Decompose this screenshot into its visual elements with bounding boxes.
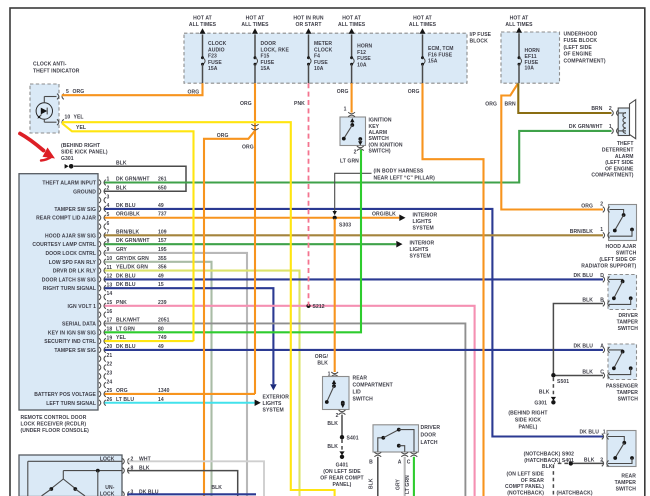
svg-text:FUSE: FUSE	[314, 60, 328, 66]
svg-text:F15: F15	[261, 54, 270, 60]
svg-text:G301: G301	[61, 156, 74, 162]
fuse F23 clock audio	[189, 16, 227, 84]
RCDLR pin 25	[34, 388, 112, 398]
svg-text:F12: F12	[357, 50, 366, 56]
svg-text:RIGHT TURN SIGNAL: RIGHT TURN SIGNAL	[43, 286, 96, 292]
svg-text:SWITCH: SWITCH	[616, 251, 637, 257]
RCDLR pin 4	[54, 203, 109, 213]
svg-text:21: 21	[107, 353, 113, 359]
hood ajar switch	[570, 201, 637, 269]
svg-text:10A: 10A	[314, 66, 324, 72]
svg-text:PASSENGER: PASSENGER	[606, 384, 638, 390]
wire BLK driver tamper pinB to S501	[553, 304, 603, 375]
svg-text:F4: F4	[314, 54, 320, 60]
svg-text:DK BLU: DK BLU	[579, 430, 599, 436]
svg-text:TAMPER: TAMPER	[615, 480, 637, 486]
wire YEL/DK GRN 356 pin11 down	[105, 265, 300, 496]
wire PNK 239 pin15 down at right	[105, 300, 475, 496]
svg-text:10: 10	[65, 115, 71, 121]
wire label BLK 650 pin2	[116, 185, 167, 191]
svg-text:FUSE: FUSE	[208, 60, 222, 66]
svg-text:PNK: PNK	[116, 300, 127, 306]
wire GRY 195 pin9 down to door lock system	[105, 247, 248, 496]
svg-text:109: 109	[158, 229, 167, 235]
svg-text:F23: F23	[208, 54, 217, 60]
svg-text:A: A	[398, 459, 402, 465]
svg-text:2: 2	[107, 186, 110, 192]
wire LT BLU 14 pin26 to exterior lights arrow	[105, 397, 255, 403]
svg-text:GRY: GRY	[396, 478, 402, 490]
arrow to interior lights system (ORG/BLK)	[399, 213, 437, 232]
svg-text:195: 195	[158, 247, 167, 253]
svg-text:D: D	[600, 273, 604, 279]
svg-text:RADIATOR SUPPORT): RADIATOR SUPPORT)	[581, 263, 636, 269]
svg-text:CLOCK: CLOCK	[314, 47, 333, 53]
svg-text:DOOR LOCK CNTRL: DOOR LOCK CNTRL	[45, 251, 96, 257]
splice S212	[306, 304, 324, 310]
svg-text:SIDE KICK PANEL): SIDE KICK PANEL)	[61, 150, 108, 156]
svg-text:ORG: ORG	[240, 101, 252, 107]
wire BLK rear lid switch pin2 to S401	[327, 415, 342, 437]
svg-text:S303: S303	[339, 223, 351, 229]
RCDLR pin 26	[46, 397, 112, 407]
svg-text:22: 22	[107, 362, 113, 368]
driver door latch	[369, 425, 440, 466]
svg-text:FUSE: FUSE	[261, 60, 275, 66]
rear tamper switch	[579, 430, 636, 493]
arrow to interior lights system (DK GRN/WHT)	[396, 241, 434, 260]
svg-text:B: B	[600, 298, 604, 304]
svg-text:G301: G301	[534, 401, 547, 407]
svg-text:24: 24	[107, 379, 113, 385]
RCDLR pin 24	[99, 379, 112, 388]
wire DK GRN/WHT 261 pin1 to theft alarm pin1	[105, 131, 612, 183]
svg-text:(BEHIND RIGHT: (BEHIND RIGHT	[508, 411, 548, 417]
svg-text:DRIVER: DRIVER	[618, 313, 638, 319]
wire ORG fuse F15 vertical down to pin25	[240, 83, 255, 394]
svg-text:DK BLU: DK BLU	[116, 344, 136, 350]
wire DK GRN/WHT 157 pin8 to interior lights arrow	[105, 238, 397, 244]
RCDLR remote control door lock receiver connector	[19, 174, 98, 434]
svg-text:DOOR LATCH SW SIG: DOOR LATCH SW SIG	[42, 277, 96, 283]
svg-text:BLK: BLK	[211, 485, 222, 491]
RCDLR pin 20	[54, 344, 112, 354]
svg-text:ORG: ORG	[73, 89, 85, 95]
ground G301 behind right side kick panel (right)	[508, 378, 556, 431]
svg-text:UN-: UN-	[105, 485, 114, 491]
theft deterrent alarm horn	[569, 100, 636, 179]
svg-text:6: 6	[107, 221, 110, 227]
svg-text:G401: G401	[336, 462, 349, 468]
svg-text:2: 2	[609, 106, 612, 112]
wire ORG fuse F12 to ignition key alarm switch pin1	[337, 83, 352, 112]
svg-text:KEY IN IGN SW SIG: KEY IN IGN SW SIG	[48, 330, 96, 336]
RCDLR pin 15	[68, 300, 113, 310]
svg-text:BLOCK: BLOCK	[470, 39, 489, 45]
svg-text:DRVR DR LK RLY: DRVR DR LK RLY	[53, 269, 97, 275]
wire BLK 650 ground loop from G301 to RCDLR pin 2	[74, 160, 186, 191]
svg-text:49: 49	[158, 273, 164, 279]
svg-text:COMPARTMENT: COMPARTMENT	[353, 383, 394, 389]
svg-text:BLK: BLK	[317, 360, 328, 366]
svg-text:ALL TIMES: ALL TIMES	[409, 22, 437, 28]
RCDLR pin 16	[99, 309, 112, 318]
svg-text:LIGHTS: LIGHTS	[410, 247, 430, 253]
RCDLR pin 8	[32, 238, 109, 248]
svg-text:BLK: BLK	[327, 444, 338, 450]
wire PNK dashed from fuse F4 meter clock to S212	[294, 83, 309, 306]
svg-text:14: 14	[158, 397, 164, 403]
svg-text:(LEFT SIDE: (LEFT SIDE	[564, 45, 593, 51]
arrow to exterior lights system (LT BLU)	[255, 395, 290, 414]
svg-text:YEL: YEL	[116, 335, 126, 341]
RCDLR pin 2	[73, 186, 109, 196]
svg-text:TAMPER SW SIG: TAMPER SW SIG	[54, 207, 96, 213]
wire YEL clock pin10 branch A down middle	[62, 122, 335, 496]
svg-text:(LEFT SIDE OF: (LEFT SIDE OF	[599, 257, 636, 263]
wire ORG 1340 pin25 from fuse F15 vertical	[105, 388, 256, 394]
RCDLR pin 18	[48, 326, 112, 336]
svg-text:FUSE BLOCK: FUSE BLOCK	[564, 38, 598, 44]
wire GRY/DK GRN 355 pin10 down	[105, 256, 212, 496]
svg-text:LIGHTS: LIGHTS	[413, 219, 433, 225]
svg-text:INTERIOR: INTERIOR	[410, 241, 435, 247]
svg-text:1: 1	[603, 430, 606, 436]
svg-text:KEY: KEY	[369, 124, 380, 130]
svg-text:REAR: REAR	[353, 376, 368, 382]
fuse EF11 horn	[505, 16, 540, 84]
svg-text:HORN: HORN	[357, 44, 372, 50]
svg-text:LIGHTS: LIGHTS	[263, 401, 283, 407]
svg-text:SECURITY IND CTRL: SECURITY IND CTRL	[44, 339, 96, 345]
RCDLR pin 12	[42, 274, 113, 284]
RCDLR pin 22	[99, 362, 112, 371]
svg-text:239: 239	[158, 300, 167, 306]
svg-text:IGN VOLT 1: IGN VOLT 1	[68, 304, 97, 310]
svg-text:SWITCH: SWITCH	[618, 396, 639, 402]
svg-text:261: 261	[158, 177, 167, 183]
svg-text:LEFT TURN SIGNAL: LEFT TURN SIGNAL	[46, 401, 96, 407]
svg-text:1: 1	[344, 107, 347, 113]
svg-text:DK BLU: DK BLU	[573, 343, 593, 349]
svg-text:LT BLU: LT BLU	[116, 397, 134, 403]
svg-text:SYSTEM: SYSTEM	[263, 408, 284, 414]
RCDLR pin 7	[45, 230, 110, 240]
svg-text:ALARM: ALARM	[369, 130, 388, 136]
svg-text:ORG: ORG	[581, 203, 593, 209]
wire BLK lock pin8	[128, 471, 238, 496]
svg-text:(IN BODY HARNESS: (IN BODY HARNESS	[374, 168, 425, 174]
svg-text:REAR: REAR	[621, 474, 636, 480]
svg-text:FUSE: FUSE	[357, 56, 371, 62]
RCDLR pin 9	[45, 247, 109, 257]
svg-text:(BEHIND RIGHT: (BEHIND RIGHT	[61, 143, 101, 149]
svg-text:AUDIO: AUDIO	[208, 47, 225, 53]
svg-text:BRN: BRN	[591, 106, 602, 112]
svg-text:10A: 10A	[525, 66, 535, 72]
svg-text:1: 1	[600, 227, 603, 233]
wire BLK driver door latch pinB down	[369, 457, 378, 496]
svg-text:HOT AT: HOT AT	[413, 16, 433, 22]
down arrow exterior lights (DK BLU)	[270, 384, 277, 390]
leader (in body harness near left C pillar) to S303	[333, 168, 436, 215]
RCDLR pin 14	[99, 291, 112, 300]
svg-text:LT GRN: LT GRN	[340, 158, 359, 164]
svg-text:YEL/DK GRN: YEL/DK GRN	[116, 265, 148, 271]
svg-text:TAMPER: TAMPER	[617, 390, 639, 396]
svg-text:CLOCK: CLOCK	[208, 41, 227, 47]
svg-text:(NOTCHBACK) S902: (NOTCHBACK) S902	[524, 452, 574, 458]
svg-text:OF ENGINE: OF ENGINE	[605, 166, 634, 172]
svg-text:BRN: BRN	[505, 102, 516, 108]
svg-text:INTERIOR: INTERIOR	[413, 213, 438, 219]
I/P fuse block box	[184, 32, 492, 83]
wire ORG fuse F23 to clock pin5	[62, 83, 203, 95]
wire BLK passenger tamper pinC from S501	[553, 375, 603, 377]
wire ORG branch from F15 vertical down left side	[204, 131, 255, 496]
svg-text:15A: 15A	[208, 66, 218, 72]
svg-text:ORG: ORG	[408, 89, 420, 95]
svg-text:ALL TIMES: ALL TIMES	[338, 22, 366, 28]
svg-text:ALL TIMES: ALL TIMES	[241, 22, 269, 28]
svg-text:5: 5	[66, 89, 69, 95]
svg-text:PANEL): PANEL)	[333, 482, 352, 488]
svg-text:S401: S401	[347, 435, 359, 441]
svg-text:737: 737	[158, 212, 167, 218]
svg-text:REMOTE CONTROL DOOR: REMOTE CONTROL DOOR	[21, 415, 87, 421]
svg-text:(ON LEFT SIDE: (ON LEFT SIDE	[323, 469, 361, 475]
fuse F12 horn	[338, 16, 373, 84]
svg-text:DK BLU: DK BLU	[116, 273, 136, 279]
svg-text:A: A	[600, 343, 604, 349]
svg-text:COMPARTMENT): COMPARTMENT)	[591, 173, 633, 179]
svg-text:LID: LID	[353, 390, 362, 396]
svg-text:HOOD AJAR: HOOD AJAR	[605, 244, 636, 250]
wire DK BLU 15 pin13 to exterior lights arrow	[105, 282, 274, 384]
svg-text:ALARM: ALARM	[615, 154, 634, 160]
svg-text:ORG/: ORG/	[315, 354, 329, 360]
svg-text:PANEL): PANEL)	[519, 424, 538, 430]
svg-text:HOT AT: HOT AT	[342, 16, 362, 22]
svg-text:BLK: BLK	[116, 160, 127, 166]
svg-text:2051: 2051	[158, 317, 170, 323]
svg-text:(HATCHBACK): (HATCHBACK)	[557, 491, 593, 496]
svg-text:METER: METER	[314, 41, 332, 47]
svg-text:2: 2	[336, 413, 339, 419]
svg-text:COURTESY LAMP CNTRL: COURTESY LAMP CNTRL	[32, 242, 96, 248]
svg-text:PNK: PNK	[294, 101, 305, 107]
svg-text:ORG: ORG	[337, 89, 349, 95]
RCDLR pin 19	[44, 335, 112, 345]
svg-text:LOCK: LOCK	[100, 491, 115, 496]
wire LT GRN driver door latch pinC down	[405, 457, 414, 496]
svg-text:SWITCH: SWITCH	[618, 326, 639, 332]
RCDLR pin 1	[42, 177, 109, 187]
svg-text:SWITCH: SWITCH	[616, 486, 637, 492]
svg-text:2: 2	[600, 457, 603, 463]
wire YEL clock pin10 branch B to pin19	[62, 123, 194, 341]
svg-text:ORG: ORG	[217, 133, 229, 139]
RCDLR pin 10	[49, 256, 113, 266]
svg-text:TAMPER SW SIG: TAMPER SW SIG	[54, 348, 96, 354]
svg-text:REAR COMPT LID AJAR: REAR COMPT LID AJAR	[36, 216, 96, 222]
svg-text:2: 2	[354, 149, 357, 155]
svg-text:(UNDER FLOOR CONSOLE): (UNDER FLOOR CONSOLE)	[21, 428, 90, 434]
svg-text:SYSTEM: SYSTEM	[413, 226, 434, 232]
svg-text:BRN/BLK: BRN/BLK	[570, 229, 594, 235]
svg-text:THEFT ALARM INPUT: THEFT ALARM INPUT	[42, 181, 96, 187]
ignition key alarm switch	[340, 107, 403, 156]
svg-text:(ON LEFT SIDE: (ON LEFT SIDE	[507, 471, 545, 477]
wire ORG underhood fuse to hood ajar switch pin2	[485, 84, 603, 210]
svg-text:S501: S501	[557, 379, 569, 385]
wire BLK/WHT 2051 pin17 down at right	[105, 317, 466, 496]
svg-text:LT GRN: LT GRN	[116, 326, 135, 332]
fuse F15 door lock rke	[241, 16, 289, 84]
svg-text:HOT AT: HOT AT	[510, 16, 530, 22]
svg-text:LOCK, RKE: LOCK, RKE	[261, 47, 290, 53]
wire WHT lock pin2	[128, 461, 265, 496]
RCDLR pin 6	[99, 221, 110, 230]
svg-text:BLK: BLK	[116, 185, 127, 191]
ground G401 on left side of rear compt panel	[320, 439, 364, 487]
fuse F16 ecm tcm	[409, 16, 454, 84]
wire DK BLU 49 pin12 to driver tamper switch pinD	[105, 273, 604, 279]
door lock actuator assembly	[19, 455, 159, 496]
svg-text:DETERRENT: DETERRENT	[602, 148, 634, 154]
svg-text:GRY: GRY	[116, 247, 128, 253]
svg-text:LT GRN: LT GRN	[405, 475, 411, 494]
svg-text:BLK: BLK	[584, 457, 595, 463]
wire BRN underhood fuse to theft alarm pin2	[505, 83, 612, 113]
svg-text:YEL: YEL	[74, 115, 84, 121]
wire LT GRN 80 pin18 to ignition key alarm switch pin2	[105, 150, 362, 332]
wire DK BLU lock pin3	[128, 493, 257, 495]
svg-text:SWITCH: SWITCH	[369, 136, 390, 142]
svg-text:ORG: ORG	[188, 90, 200, 96]
svg-text:1340: 1340	[158, 388, 170, 394]
svg-text:THEFT: THEFT	[617, 141, 634, 147]
svg-text:GRY/DK GRN: GRY/DK GRN	[116, 256, 149, 262]
wire GRY driver door latch pinA down	[396, 457, 405, 496]
svg-text:DK GRN/WHT: DK GRN/WHT	[116, 238, 150, 244]
svg-text:C: C	[600, 369, 604, 375]
wire BLK rear tamper pin2 to splice S902/S401	[505, 452, 603, 496]
svg-text:LOW SPD FAN RLY: LOW SPD FAN RLY	[49, 260, 97, 266]
svg-text:(ON IGNITION: (ON IGNITION	[369, 142, 403, 148]
svg-text:355: 355	[158, 256, 167, 262]
svg-text:16: 16	[107, 309, 113, 315]
svg-text:BRN/BLK: BRN/BLK	[116, 229, 140, 235]
svg-text:80: 80	[158, 326, 164, 332]
svg-text:ECM, TCM: ECM, TCM	[428, 46, 454, 52]
svg-text:OR START: OR START	[295, 22, 322, 28]
svg-text:49: 49	[158, 203, 164, 209]
splice S501	[551, 373, 569, 385]
svg-text:SWITCH: SWITCH	[353, 397, 374, 403]
svg-text:23: 23	[107, 371, 113, 377]
svg-text:YEL: YEL	[76, 125, 86, 131]
svg-text:COMPARTMENT): COMPARTMENT)	[564, 58, 606, 64]
svg-text:C: C	[407, 459, 411, 465]
svg-text:OF REAR: OF REAR	[521, 478, 545, 484]
svg-text:DOOR: DOOR	[421, 432, 437, 438]
svg-text:THEFT INDICATOR: THEFT INDICATOR	[33, 69, 80, 75]
svg-text:BLK/WHT: BLK/WHT	[116, 317, 141, 323]
svg-text:DRIVER: DRIVER	[421, 425, 441, 431]
svg-text:3: 3	[107, 194, 110, 200]
svg-text:49: 49	[158, 344, 164, 350]
wire YEL 749 pin19 to clock yellow branch	[105, 335, 194, 341]
svg-text:CLOCK ANTI-: CLOCK ANTI-	[33, 62, 67, 68]
wire ORG/BLK 737 pin5 to S303 and interior lights arrow	[105, 212, 400, 218]
svg-text:HOT AT: HOT AT	[246, 16, 266, 22]
svg-text:1: 1	[609, 124, 612, 130]
wire BRN/BLK 109 pin7 to hood ajar switch pin1	[105, 229, 604, 235]
svg-text:14: 14	[107, 291, 113, 297]
red annotation arrow pointing to G301	[20, 134, 55, 161]
svg-text:BATTERY POS VOLTAGE: BATTERY POS VOLTAGE	[34, 392, 96, 398]
RCDLR pin 21	[99, 353, 112, 362]
svg-text:650: 650	[158, 185, 167, 191]
svg-text:DK BLU: DK BLU	[116, 282, 136, 288]
svg-text:15: 15	[158, 282, 164, 288]
crossover hop marks on ORG at YEL crossing	[251, 124, 258, 130]
svg-text:157: 157	[158, 238, 167, 244]
rear compartment lid switch	[315, 219, 394, 419]
svg-text:15A: 15A	[428, 59, 438, 65]
svg-text:2: 2	[600, 201, 603, 207]
svg-text:S212: S212	[313, 304, 325, 310]
fuse F4 meter clock	[293, 16, 332, 84]
svg-text:(LEFT SIDE: (LEFT SIDE	[605, 160, 634, 166]
ground G301 (behind right side kick panel)	[61, 143, 108, 169]
wire DK BLU 49 pin4 to rear tamper switch pin1	[105, 203, 604, 437]
svg-text:(NOTCHBACK): (NOTCHBACK)	[507, 491, 544, 496]
svg-text:BLK: BLK	[539, 389, 550, 395]
RCDLR pin 13	[43, 282, 112, 292]
svg-text:BLK: BLK	[582, 369, 593, 375]
svg-text:GROUND: GROUND	[73, 189, 96, 195]
driver tamper switch	[573, 273, 638, 332]
passenger tamper switch	[573, 343, 638, 402]
svg-text:10A: 10A	[357, 62, 367, 68]
svg-text:LATCH: LATCH	[421, 440, 438, 446]
RCDLR pin 3	[99, 194, 110, 203]
svg-text:OF REAR COMPT: OF REAR COMPT	[320, 475, 364, 481]
svg-text:DK GRN/WHT: DK GRN/WHT	[116, 177, 150, 183]
RCDLR pin 17	[62, 318, 112, 328]
svg-text:HOOD AJAR SW SIG: HOOD AJAR SW SIG	[45, 233, 96, 239]
svg-text:ORG/BLK: ORG/BLK	[372, 212, 396, 218]
svg-text:15A: 15A	[261, 66, 271, 72]
RCDLR pin 5	[36, 212, 109, 222]
splice S401	[340, 435, 359, 441]
svg-text:NEAR LEFT “C” PILLAR): NEAR LEFT “C” PILLAR)	[374, 175, 436, 181]
svg-text:ORG: ORG	[485, 102, 497, 108]
svg-text:BLK: BLK	[369, 478, 375, 489]
svg-text:HOT IN RUN: HOT IN RUN	[293, 16, 324, 22]
underhood fuse block box	[501, 32, 606, 84]
svg-text:BLK: BLK	[582, 298, 593, 304]
svg-text:DK BLU: DK BLU	[573, 273, 593, 279]
svg-text:ORG/BLK: ORG/BLK	[116, 212, 140, 218]
RCDLR pin 11	[53, 265, 112, 275]
svg-text:OF ENGINE: OF ENGINE	[564, 52, 593, 58]
svg-text:COMPT PANEL): COMPT PANEL)	[505, 484, 544, 490]
svg-text:IGNITION: IGNITION	[369, 118, 392, 124]
svg-text:I/P FUSE: I/P FUSE	[470, 32, 492, 38]
